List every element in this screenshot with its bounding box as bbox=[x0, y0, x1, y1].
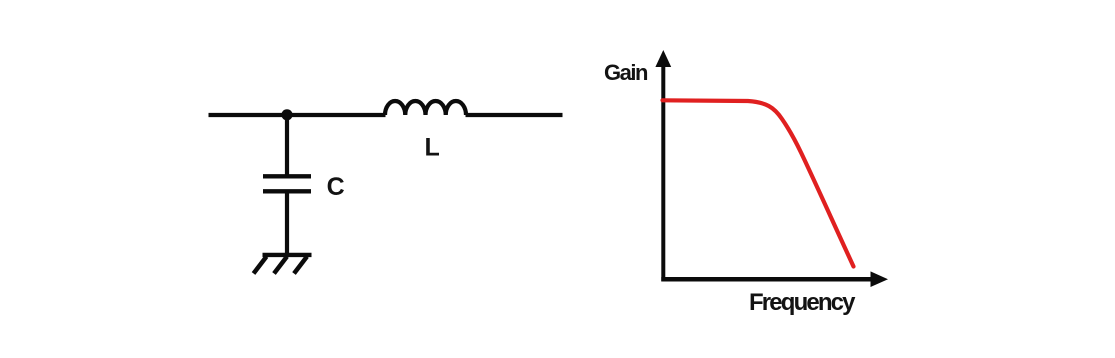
frequency axis (horizontal, with arrowhead) bbox=[661, 271, 888, 287]
node junction dot bbox=[281, 109, 292, 120]
inductor L bbox=[385, 101, 466, 115]
capacitor C (two plates) bbox=[263, 176, 311, 191]
gain response curve bbox=[663, 100, 854, 266]
wire capacitor to ground (vertical) bbox=[285, 191, 289, 255]
svg-text:C: C bbox=[327, 173, 345, 201]
gain axis (vertical, with arrowhead) bbox=[655, 50, 671, 281]
ground bbox=[254, 255, 312, 274]
wire node to capacitor (vertical) bbox=[285, 115, 289, 176]
wire input segment (left horizontal) bbox=[209, 113, 386, 117]
wire inductor to output (right horizontal) bbox=[466, 113, 563, 117]
svg-text:L: L bbox=[425, 134, 440, 162]
svg-text:Frequency: Frequency bbox=[749, 289, 856, 316]
svg-text:Gain: Gain bbox=[604, 60, 649, 85]
